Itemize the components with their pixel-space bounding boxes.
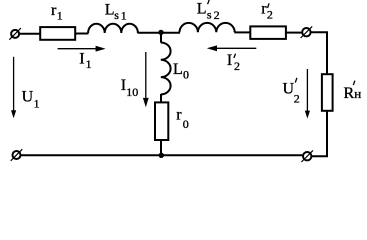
- svg-text:2: 2: [294, 92, 300, 106]
- svg-text:2: 2: [234, 59, 240, 73]
- svg-text:U: U: [283, 81, 295, 98]
- svg-text:0: 0: [183, 117, 189, 131]
- svg-text:L: L: [173, 61, 183, 78]
- svg-text:L: L: [197, 1, 207, 18]
- svg-text:2: 2: [214, 8, 220, 22]
- svg-text:I: I: [79, 51, 84, 68]
- svg-text:s: s: [114, 8, 119, 22]
- svg-text:1: 1: [86, 57, 92, 71]
- svg-text:R: R: [344, 85, 355, 102]
- svg-text:I: I: [227, 52, 232, 69]
- svg-text:U: U: [22, 89, 34, 106]
- svg-text:1: 1: [121, 8, 127, 22]
- svg-text:1: 1: [57, 8, 63, 22]
- svg-text:2: 2: [267, 8, 273, 22]
- svg-text:s: s: [207, 7, 212, 21]
- svg-text:н: н: [354, 86, 361, 101]
- svg-text:L: L: [105, 1, 115, 18]
- svg-text:0: 0: [183, 68, 189, 82]
- svg-text:1: 1: [34, 97, 40, 111]
- svg-text:10: 10: [126, 85, 138, 99]
- svg-text:r: r: [176, 106, 182, 123]
